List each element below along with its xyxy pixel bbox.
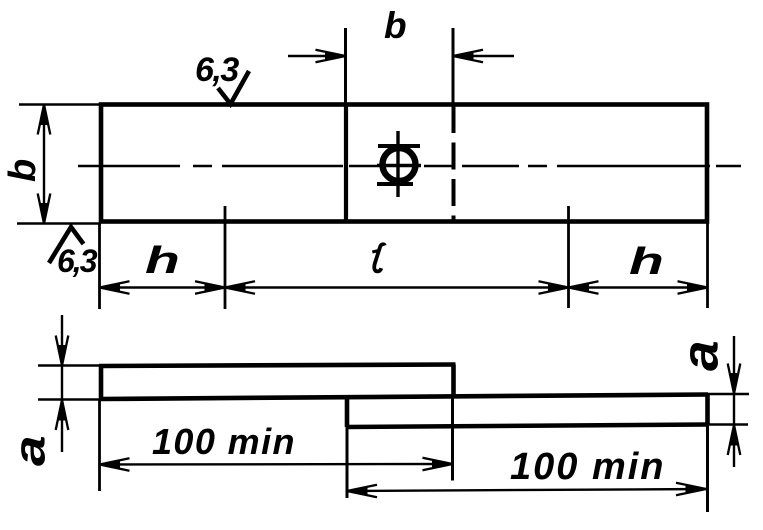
svg-text:a: a bbox=[672, 340, 728, 371]
svg-text:6,3: 6,3 bbox=[195, 51, 239, 89]
svg-text:h: h bbox=[145, 239, 180, 281]
svg-text:b: b bbox=[2, 159, 44, 182]
svg-text:a: a bbox=[5, 435, 54, 466]
svg-text:100 min: 100 min bbox=[152, 421, 296, 462]
svg-text:100 min: 100 min bbox=[510, 446, 666, 488]
svg-text:6,3: 6,3 bbox=[57, 243, 98, 279]
svg-text:h: h bbox=[629, 240, 664, 282]
svg-text:b: b bbox=[384, 5, 407, 46]
